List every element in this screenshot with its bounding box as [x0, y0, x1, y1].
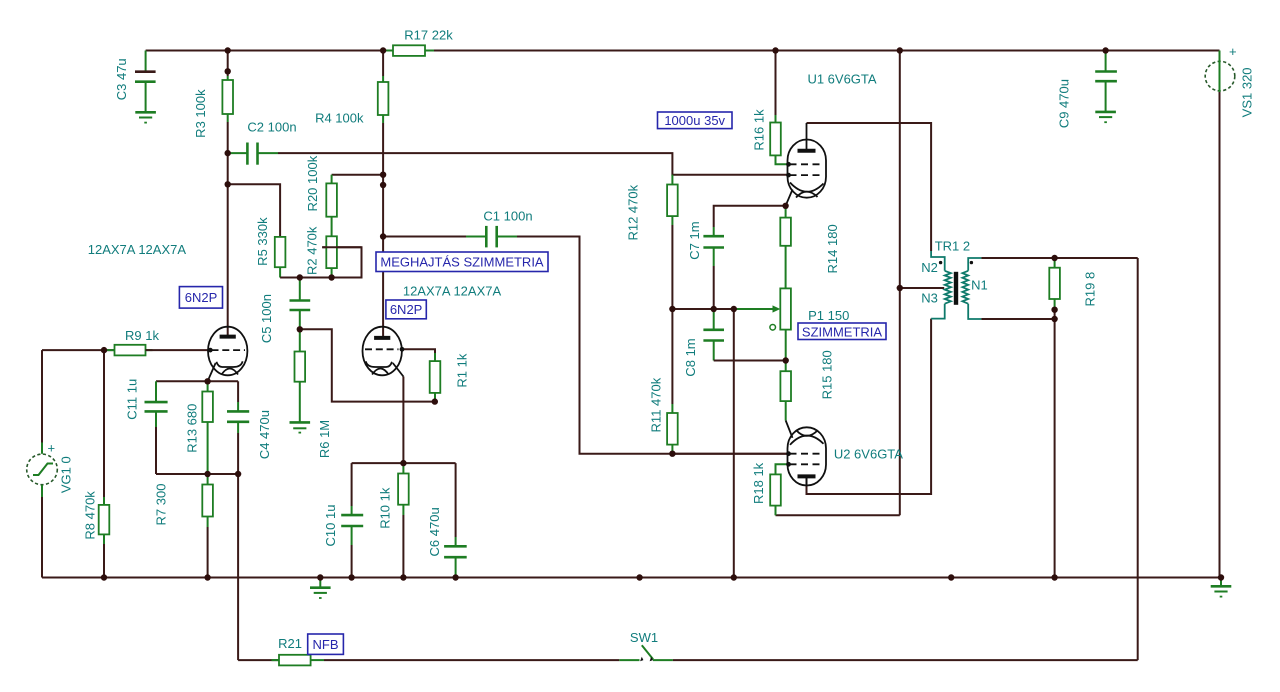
- transformer TR1: [931, 251, 981, 319]
- resistor R1 1k: [430, 353, 441, 402]
- node C5 / R6: [297, 326, 303, 332]
- TR1 phase dot N2: [939, 261, 942, 264]
- label box 6N2P right: [386, 300, 426, 319]
- ground below R6: [290, 422, 311, 432]
- wire R12 bottom to wiper node: [671, 225, 673, 309]
- node center tap: [897, 285, 903, 291]
- wire center tap stub: [900, 287, 944, 289]
- TR1 primary top lead: [931, 251, 945, 271]
- svg-text:1000u 35v: 1000u 35v: [664, 113, 725, 128]
- resistor R19 8: [1049, 258, 1060, 310]
- label box SZIMMETRIA: [798, 323, 886, 340]
- svg-text:U2 6V6GTA: U2 6V6GTA: [834, 447, 903, 462]
- resistor R17 22k: [384, 50, 393, 52]
- resistor R15 180: [780, 361, 791, 421]
- wire cathode network bottom line: [156, 473, 238, 475]
- ground below C3: [135, 112, 156, 122]
- resistor R12 470k: [667, 175, 678, 225]
- wire R5 bottom node with hook over R2: [280, 247, 361, 277]
- node wiper / riser: [731, 306, 737, 312]
- node top rail / R4: [380, 47, 386, 53]
- U2 grids: [790, 453, 824, 455]
- U2 cathode: [790, 436, 824, 445]
- wire C8 net riser to ground: [733, 309, 735, 578]
- svg-text:R7 300: R7 300: [154, 484, 169, 526]
- V1a cathode: [216, 361, 242, 367]
- capacitor C3 47u: [135, 51, 156, 113]
- node ground / R7: [204, 574, 210, 580]
- svg-text:R15 180: R15 180: [819, 350, 834, 399]
- capacitor C2 100n: [228, 143, 278, 165]
- node P1 bottom: [783, 357, 789, 363]
- node ground / gnd sym: [317, 574, 323, 580]
- V1a grid: [212, 349, 246, 351]
- svg-text:R2 470k: R2 470k: [304, 226, 319, 275]
- node tube2 plate / R20: [380, 172, 386, 178]
- node tube2 plate / C1: [380, 233, 386, 239]
- wire wiper line: [672, 308, 733, 310]
- TR1 secondary winding N1: [962, 271, 968, 304]
- node R19 bottom: [1051, 307, 1057, 313]
- label box 6N2P left: [179, 287, 222, 309]
- V1a envelope: [208, 327, 247, 376]
- svg-text:C4 470u: C4 470u: [257, 410, 272, 459]
- capacitor C6 470u: [444, 463, 467, 577]
- svg-text:C7 1m: C7 1m: [687, 221, 702, 259]
- V1b envelope: [363, 327, 402, 376]
- node stray on R3 lead: [225, 68, 231, 74]
- svg-text:C1 100n: C1 100n: [483, 209, 532, 224]
- node U1 cathode: [782, 203, 788, 209]
- wire B+ center tap riser: [899, 51, 901, 516]
- svg-text:R16 1k: R16 1k: [751, 109, 766, 151]
- resistor R14 180: [780, 206, 791, 289]
- wire NFB line left: [238, 659, 279, 661]
- wire screen R18 return: [776, 514, 900, 516]
- pentode U2 6V6GTA (flipped): [786, 421, 826, 486]
- svg-text:N3: N3: [921, 290, 938, 305]
- TR1 phase dot N1: [970, 261, 973, 264]
- node ground / C6: [452, 574, 458, 580]
- resistor R11 470k: [667, 404, 678, 454]
- resistor R9 1k: [107, 349, 115, 351]
- ground symbol bottom right: [1211, 578, 1232, 597]
- node wiper / C8: [711, 306, 717, 312]
- resistor R16 1k: [770, 51, 788, 165]
- node ground / C10: [348, 574, 354, 580]
- wire top rail right of R17: [425, 50, 1220, 52]
- node ground / R19 riser: [1051, 574, 1057, 580]
- V1b plate: [374, 336, 390, 340]
- node tube2 cathode: [400, 460, 406, 466]
- wire secondary bottom line: [981, 318, 1054, 320]
- svg-text:C2 100n: C2 100n: [247, 120, 296, 135]
- node R9 / R8: [101, 347, 107, 353]
- U1 cathode: [790, 183, 824, 192]
- node tube1 plate / R5: [225, 181, 231, 187]
- node R11 / U2 grid: [669, 451, 675, 457]
- node R5 line / R2: [328, 274, 334, 280]
- capacitor C10 1u: [341, 463, 363, 577]
- svg-text:R13 680: R13 680: [184, 404, 199, 453]
- resistor R2 470k: [326, 217, 337, 278]
- node ground stray: [948, 574, 954, 580]
- svg-text:N1: N1: [971, 278, 988, 293]
- node top rail / center tap riser: [897, 47, 903, 53]
- svg-text:N2: N2: [921, 260, 938, 275]
- svg-text:NFB: NFB: [313, 637, 339, 652]
- resistor R5 330k: [275, 237, 286, 278]
- resistor R21: [272, 655, 325, 666]
- source VG1 0: [27, 441, 58, 498]
- svg-text:R11 470k: R11 470k: [648, 377, 663, 432]
- capacitor C11 1u: [145, 381, 168, 474]
- U1 plate: [798, 149, 816, 153]
- svg-text:C9 470u: C9 470u: [1057, 79, 1072, 128]
- resistor R7 300: [202, 474, 213, 578]
- svg-text:C5 100n: C5 100n: [259, 294, 274, 343]
- U2 envelope: [788, 427, 827, 485]
- TR1 primary winding N2 N3: [945, 271, 951, 304]
- svg-text:C8 1m: C8 1m: [683, 338, 698, 376]
- resistor R20 100k: [326, 175, 337, 217]
- resistor R8 470k: [99, 350, 110, 577]
- wire NFB riser to cathode network: [237, 474, 239, 660]
- svg-text:12AX7A 12AX7A: 12AX7A 12AX7A: [88, 242, 187, 257]
- svg-text:P1 150: P1 150: [808, 308, 849, 323]
- svg-text:R6 1M: R6 1M: [317, 420, 332, 458]
- node R5 line / C5: [297, 274, 303, 280]
- wire VG1 bottom lead: [41, 497, 43, 578]
- node C4 bottom: [235, 471, 241, 477]
- capacitor C8 1m: [703, 309, 724, 361]
- wire C1 to U2 grid: [517, 237, 788, 454]
- svg-text:6N2P: 6N2P: [390, 302, 423, 317]
- node top rail / C9: [1102, 47, 1108, 53]
- wire C2 to U1 grid: [278, 153, 788, 175]
- resistor R18 1k: [770, 464, 788, 515]
- svg-text:R5 330k: R5 330k: [255, 217, 270, 266]
- node ground mid: [636, 574, 642, 580]
- V1b grid: [365, 348, 399, 350]
- svg-text:U1 6V6GTA: U1 6V6GTA: [807, 72, 876, 87]
- wire NFB line right of SW1: [673, 659, 1138, 661]
- wire R19 bottom to ground rail: [1054, 310, 1056, 578]
- wire R9 input line: [42, 349, 115, 351]
- potentiometer P1 150: [770, 288, 791, 360]
- wire tube2 grid to R1: [403, 349, 435, 353]
- svg-text:SZIMMETRIA: SZIMMETRIA: [802, 324, 882, 339]
- svg-text:TR1 2: TR1 2: [935, 238, 970, 253]
- ground below C9: [1095, 112, 1116, 122]
- wire tube2 plate vertical: [382, 123, 384, 338]
- svg-text:C10 1u: C10 1u: [323, 505, 338, 547]
- svg-text:VG1 0: VG1 0: [58, 456, 73, 493]
- capacitor C4 470u: [227, 381, 249, 474]
- source VS1 320: [1205, 44, 1236, 92]
- wire NFB line to SW1: [324, 659, 619, 661]
- ground symbol on ground rail: [310, 578, 331, 599]
- wire secondary top line: [981, 257, 1137, 259]
- wire VG1 top lead: [41, 350, 43, 442]
- wire node R5 branch: [228, 184, 280, 237]
- node top rail / R3: [225, 47, 231, 53]
- svg-text:R9 1k: R9 1k: [125, 328, 159, 343]
- wire tube1 cathode node: [156, 380, 238, 382]
- node tube1 plate / C2: [225, 150, 231, 156]
- node ground / R10: [400, 574, 406, 580]
- wire secondary right drop to NFB: [1137, 258, 1139, 660]
- triode V1a (6N2P left): [208, 327, 248, 382]
- capacitor C7 1m: [703, 206, 785, 309]
- node secondary top / R19: [1051, 255, 1057, 261]
- wire U1 plate to transformer: [807, 123, 932, 251]
- resistor R10 1k: [398, 463, 409, 577]
- U1 envelope: [788, 140, 827, 198]
- svg-text:+: +: [48, 441, 56, 456]
- triode V1b (6N2P right, mirrored): [363, 327, 405, 377]
- wire C5 node to R1 bottom: [300, 329, 435, 401]
- wire wiper node to R11: [671, 309, 673, 404]
- svg-text:C6 470u: C6 470u: [427, 507, 442, 556]
- resistor R3 100k: [222, 51, 233, 123]
- label box NFB: [308, 634, 344, 654]
- wire R9 to tube1 grid: [146, 349, 210, 351]
- svg-text:R19 8: R19 8: [1082, 272, 1097, 307]
- svg-text:SW1: SW1: [630, 630, 658, 645]
- svg-text:R8 470k: R8 470k: [82, 491, 97, 540]
- resistor R4 100k: [378, 51, 389, 124]
- TR1 core: [954, 272, 958, 305]
- wire tube1 plate vertical: [227, 122, 229, 337]
- wire U2 grid line from R11: [672, 453, 788, 455]
- svg-text:MEGHAJTÁS SZIMMETRIA: MEGHAJTÁS SZIMMETRIA: [380, 255, 544, 270]
- node secondary bottom: [1051, 316, 1057, 322]
- node top rail / R16: [772, 47, 778, 53]
- node ground / C8 riser: [731, 574, 737, 580]
- V1b cathode: [366, 361, 392, 367]
- TR1 secondary top lead: [968, 258, 981, 271]
- svg-text:R1 1k: R1 1k: [455, 353, 470, 387]
- label box MEGHAJTAS SZIMMETRIA: [376, 252, 548, 272]
- svg-text:C11 1u: C11 1u: [125, 379, 140, 420]
- node ground / VS1: [1218, 574, 1224, 580]
- resistor R6 1M: [295, 329, 306, 422]
- svg-text:R10 1k: R10 1k: [378, 487, 393, 529]
- TR1 secondary bottom lead: [968, 304, 981, 319]
- svg-text:R17 22k: R17 22k: [404, 28, 453, 43]
- switch SW1: [619, 645, 673, 661]
- pentode U1 6V6GTA: [786, 123, 826, 206]
- svg-text:R20 100k: R20 100k: [305, 155, 320, 211]
- svg-text:+: +: [1229, 44, 1237, 59]
- svg-text:C3 47u: C3 47u: [114, 58, 129, 100]
- wire tube2 cathode node line: [352, 462, 456, 464]
- wire R20 top to tube2 plate line: [332, 174, 384, 176]
- node R1 bottom: [432, 398, 438, 404]
- label box 1000u 35v: [658, 112, 733, 129]
- svg-text:R21: R21: [278, 636, 302, 651]
- node R13 bottom: [204, 471, 210, 477]
- wire top rail left of R17: [146, 50, 393, 52]
- node tube1 cathode: [204, 378, 210, 384]
- wire ground rail: [42, 577, 1221, 579]
- svg-text:R14 180: R14 180: [825, 224, 840, 273]
- node wiper / R12-R11: [669, 306, 675, 312]
- node ground / R8: [101, 574, 107, 580]
- capacitor C5 100n: [290, 278, 311, 330]
- svg-text:6N2P: 6N2P: [185, 290, 218, 305]
- resistor R13 680: [202, 381, 213, 474]
- svg-text:R3 100k: R3 100k: [193, 89, 208, 138]
- svg-text:R18 1k: R18 1k: [751, 462, 766, 504]
- svg-text:VS1 320: VS1 320: [1239, 67, 1254, 117]
- wire U2 plate to transformer: [807, 319, 932, 494]
- wire C8 bottom to P1 bottom: [714, 360, 786, 362]
- wire hook segment over R2 body: [322, 246, 361, 248]
- wire VS1 to ground rail: [1219, 92, 1221, 578]
- V1a plate: [220, 335, 236, 339]
- wire tube2 cathode vertical: [402, 377, 404, 464]
- capacitor C9 470u: [1095, 51, 1117, 112]
- svg-text:12AX7A 12AX7A: 12AX7A 12AX7A: [403, 284, 502, 299]
- TR1 primary bottom lead: [931, 304, 945, 319]
- node tube2 plate stray: [380, 182, 386, 188]
- svg-text:R12 470k: R12 470k: [625, 184, 640, 240]
- wire wiper arrow to P1: [734, 305, 781, 312]
- svg-text:R4 100k: R4 100k: [315, 110, 364, 125]
- capacitor C1 100n: [383, 226, 517, 248]
- U1 grids: [790, 163, 824, 165]
- U2 plate: [798, 474, 816, 478]
